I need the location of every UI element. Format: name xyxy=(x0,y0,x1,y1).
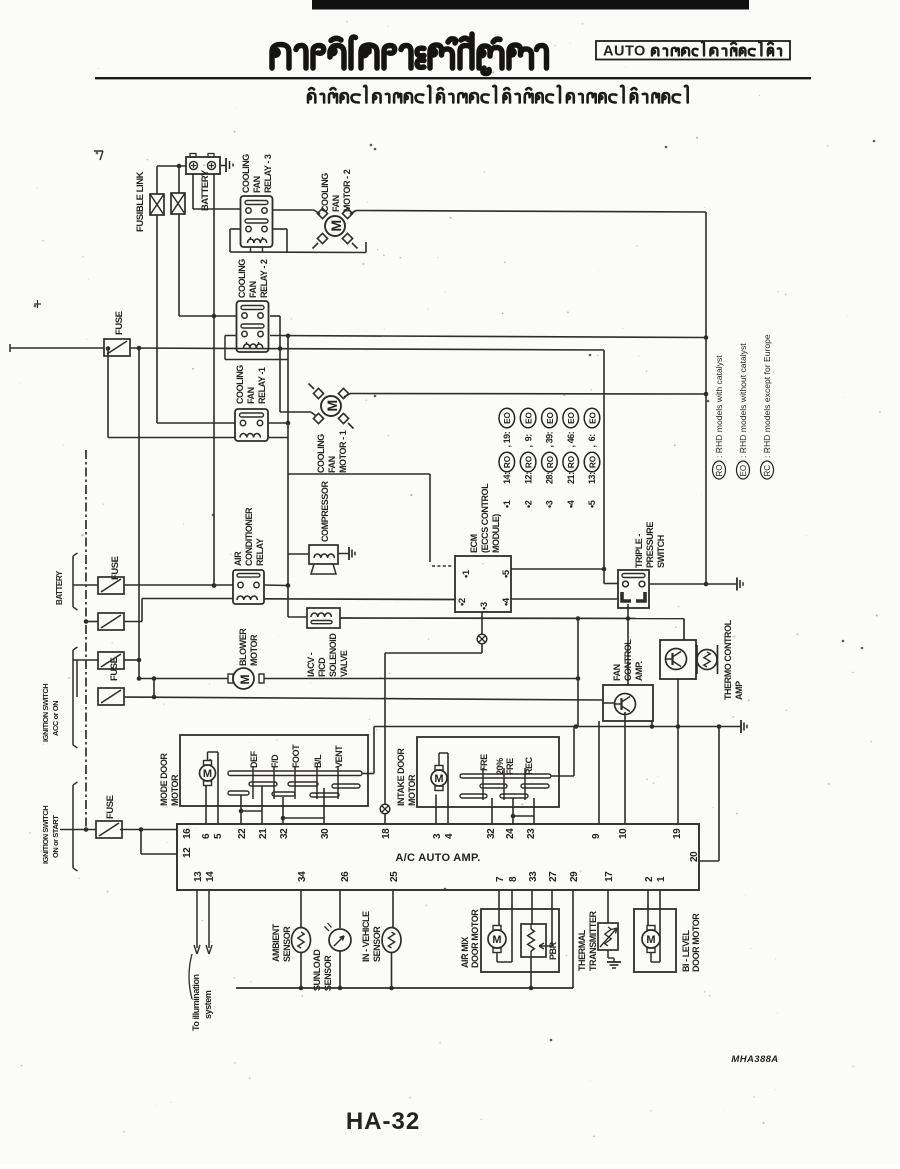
svg-text:EO: EO xyxy=(525,411,534,423)
svg-text:FUSE: FUSE xyxy=(109,657,120,681)
svg-text:HA-32: HA-32 xyxy=(346,1108,420,1135)
svg-text:EO: EO xyxy=(739,465,748,477)
svg-text:23: 23 xyxy=(526,828,537,839)
svg-text:MOTOR - 2: MOTOR - 2 xyxy=(342,169,352,212)
svg-text:20%: 20% xyxy=(495,758,505,775)
svg-text:RC: RC xyxy=(763,465,772,477)
svg-text:18: 18 xyxy=(381,828,392,839)
svg-text:AIR MIX: AIR MIX xyxy=(460,937,470,968)
svg-text:EO: EO xyxy=(503,411,512,423)
svg-text:FUSE: FUSE xyxy=(105,795,116,819)
svg-text:RO: RO xyxy=(567,455,576,468)
svg-text:IN - VEHICLE: IN - VEHICLE xyxy=(361,911,371,962)
svg-text:MODULE): MODULE) xyxy=(491,514,501,553)
svg-text:30: 30 xyxy=(320,828,331,839)
svg-text:BI - LEVEL: BI - LEVEL xyxy=(681,930,691,972)
svg-text:THERMAL: THERMAL xyxy=(577,929,587,971)
svg-text:10: 10 xyxy=(618,828,629,839)
svg-text:RELAY: RELAY xyxy=(255,538,265,566)
svg-text:BLOWER: BLOWER xyxy=(238,628,248,666)
svg-text:, 6:: , 6: xyxy=(587,434,597,448)
svg-text:FRE: FRE xyxy=(479,754,489,771)
svg-text:FAN: FAN xyxy=(248,281,258,298)
svg-text:•1: •1 xyxy=(502,500,512,508)
svg-text:3: 3 xyxy=(432,833,443,839)
svg-text:BATTERY: BATTERY xyxy=(200,169,211,211)
svg-text:MOTOR: MOTOR xyxy=(249,634,259,666)
svg-text:14: 14 xyxy=(205,871,216,882)
svg-text:•5: •5 xyxy=(587,500,597,508)
svg-text:FAN: FAN xyxy=(327,456,337,473)
svg-text:AMP: AMP xyxy=(734,681,744,700)
svg-text:24: 24 xyxy=(505,828,516,839)
svg-text:SENSOR: SENSOR xyxy=(282,926,292,962)
svg-text:21:: 21: xyxy=(566,472,576,484)
svg-text:, 39:: , 39: xyxy=(545,431,555,447)
svg-text:THERMO CONTROL: THERMO CONTROL xyxy=(723,619,733,700)
svg-text:system: system xyxy=(203,990,213,1019)
svg-text:33: 33 xyxy=(528,871,539,882)
svg-text:FUSE: FUSE xyxy=(114,311,125,335)
svg-text:INTAKE DOOR: INTAKE DOOR xyxy=(396,748,406,806)
svg-text:M: M xyxy=(324,400,340,412)
svg-text:COOLING: COOLING xyxy=(316,434,326,473)
svg-text:M: M xyxy=(646,934,655,946)
svg-text:•3: •3 xyxy=(545,500,555,508)
svg-text:34: 34 xyxy=(297,871,308,882)
svg-text:MHA388A: MHA388A xyxy=(731,1054,778,1065)
svg-text:M: M xyxy=(203,768,212,780)
svg-text:•2: •2 xyxy=(457,598,468,606)
svg-text:SWITCH: SWITCH xyxy=(656,535,666,568)
svg-text:A/C AUTO AMP.: A/C AUTO AMP. xyxy=(395,852,480,864)
svg-text:32: 32 xyxy=(486,828,497,839)
svg-text:RO: RO xyxy=(715,465,724,477)
svg-text:FRE: FRE xyxy=(505,758,515,775)
svg-text:FAN: FAN xyxy=(612,664,622,681)
svg-text:SOLENOID: SOLENOID xyxy=(328,633,338,677)
svg-text:DOOR MOTOR: DOOR MOTOR xyxy=(691,913,701,972)
svg-text:DOOR MOTOR: DOOR MOTOR xyxy=(470,909,480,968)
svg-text:MODE DOOR: MODE DOOR xyxy=(159,753,169,806)
svg-text:FAN: FAN xyxy=(331,195,341,212)
svg-text:COOLING: COOLING xyxy=(235,365,245,404)
svg-text:TRIPLE -: TRIPLE - xyxy=(634,534,644,568)
svg-text:: RHD models except for Europe: : RHD models except for Europe xyxy=(762,334,772,458)
svg-text:CONDITIONER: CONDITIONER xyxy=(244,507,254,566)
svg-text:•4: •4 xyxy=(501,597,512,606)
svg-text:: RHD models with catalyst: : RHD models with catalyst xyxy=(714,355,724,458)
svg-text:AMP.: AMP. xyxy=(634,661,644,681)
svg-text:12: 12 xyxy=(182,847,193,858)
svg-text:9: 9 xyxy=(591,833,602,839)
svg-text:M: M xyxy=(328,220,344,232)
svg-text:1: 1 xyxy=(656,876,667,882)
svg-text:14:: 14: xyxy=(502,472,512,484)
svg-text:F/D: F/D xyxy=(270,754,280,768)
svg-text:MOTOR: MOTOR xyxy=(170,774,180,806)
svg-text:, 9:: , 9: xyxy=(523,434,533,448)
svg-text:EO: EO xyxy=(546,411,555,423)
svg-text:M: M xyxy=(434,773,443,785)
svg-text:RO: RO xyxy=(546,455,555,468)
svg-text:RELAY -1: RELAY -1 xyxy=(257,367,267,404)
svg-text:PRESSURE: PRESSURE xyxy=(645,522,655,568)
svg-text:22: 22 xyxy=(237,828,248,839)
svg-text:RELAY - 3: RELAY - 3 xyxy=(263,154,273,193)
svg-text:RO: RO xyxy=(503,455,512,468)
svg-text:CONTROL: CONTROL xyxy=(623,639,633,681)
svg-text:2: 2 xyxy=(644,876,655,882)
svg-text:27: 27 xyxy=(548,871,559,882)
svg-text:EO: EO xyxy=(588,411,597,423)
svg-text:AMBIENT: AMBIENT xyxy=(271,923,281,962)
svg-text:IGNITION SWITCH: IGNITION SWITCH xyxy=(41,684,50,742)
svg-text:M: M xyxy=(238,675,252,685)
svg-text:FUSIBLE LINK: FUSIBLE LINK xyxy=(135,171,146,232)
svg-text:, 46:: , 46: xyxy=(566,431,576,447)
svg-text:32: 32 xyxy=(279,828,290,839)
svg-text:IGNITION SWITCH: IGNITION SWITCH xyxy=(41,806,50,864)
svg-text:IACV -: IACV - xyxy=(306,652,316,677)
svg-text:25: 25 xyxy=(389,871,400,882)
svg-text:6: 6 xyxy=(201,833,212,839)
svg-text:19: 19 xyxy=(672,828,683,839)
svg-text:ON or START: ON or START xyxy=(51,815,60,858)
svg-text:•4: •4 xyxy=(566,500,576,508)
svg-text:•2: •2 xyxy=(523,500,533,508)
svg-text:AUTO: AUTO xyxy=(603,44,646,60)
svg-text:FAN: FAN xyxy=(246,387,256,404)
svg-text:(ECCS CONTROL: (ECCS CONTROL xyxy=(480,483,490,553)
svg-text:29: 29 xyxy=(569,871,580,882)
svg-text:SENSOR: SENSOR xyxy=(323,955,333,991)
svg-text:21: 21 xyxy=(258,828,269,839)
svg-text:16: 16 xyxy=(182,828,193,839)
svg-text:ACC or ON: ACC or ON xyxy=(51,701,60,736)
svg-text:To illumination: To illumination xyxy=(191,974,201,1031)
svg-text:ECM: ECM xyxy=(469,534,479,553)
svg-text:5: 5 xyxy=(213,833,224,839)
svg-text:EO: EO xyxy=(567,411,576,423)
svg-text:DEF: DEF xyxy=(249,750,259,768)
svg-text:VALVE: VALVE xyxy=(339,650,349,677)
svg-text:8: 8 xyxy=(508,876,519,882)
svg-text:FUSE: FUSE xyxy=(110,556,121,580)
svg-text:13:: 13: xyxy=(587,472,597,484)
svg-text:B/L: B/L xyxy=(313,754,323,768)
svg-text:M: M xyxy=(492,934,501,946)
svg-text:SUNLOAD: SUNLOAD xyxy=(312,949,322,991)
svg-text:26: 26 xyxy=(340,871,351,882)
svg-text:: RHD models without catalyst: : RHD models without catalyst xyxy=(738,343,748,458)
svg-text:COOLING: COOLING xyxy=(237,259,247,298)
svg-text:7: 7 xyxy=(495,876,506,882)
svg-text:COOLING: COOLING xyxy=(320,173,330,212)
svg-text:PBR: PBR xyxy=(548,941,558,960)
svg-text:FOOT: FOOT xyxy=(291,744,301,768)
svg-text:13: 13 xyxy=(193,871,204,882)
svg-text:•1: •1 xyxy=(461,569,472,578)
svg-text:SENSOR: SENSOR xyxy=(372,926,382,962)
svg-text:FICD: FICD xyxy=(317,657,327,677)
svg-text:•3: •3 xyxy=(479,602,490,610)
svg-text:RO: RO xyxy=(588,455,597,468)
svg-text:RO: RO xyxy=(525,455,534,468)
svg-text:TRANSMITTER: TRANSMITTER xyxy=(588,911,598,971)
svg-text:RELAY - 2: RELAY - 2 xyxy=(259,259,269,298)
svg-text:COMPRESSOR: COMPRESSOR xyxy=(320,481,330,542)
svg-text:4: 4 xyxy=(444,833,455,839)
svg-text:BATTERY: BATTERY xyxy=(55,570,64,605)
svg-text:AIR: AIR xyxy=(233,551,243,566)
svg-text:MOTOR - 1: MOTOR - 1 xyxy=(338,430,348,473)
svg-text:MOTOR: MOTOR xyxy=(407,774,417,806)
svg-text:20: 20 xyxy=(689,851,700,862)
svg-text:, 19:: , 19: xyxy=(502,431,512,447)
svg-text:•5: •5 xyxy=(501,569,512,578)
svg-text:FAN: FAN xyxy=(252,176,262,193)
svg-text:REC: REC xyxy=(524,756,534,775)
svg-text:COOLING: COOLING xyxy=(241,154,251,193)
svg-text:12:: 12: xyxy=(523,472,533,484)
svg-text:VENT: VENT xyxy=(334,745,344,768)
svg-text:17: 17 xyxy=(604,871,615,882)
svg-text:28:: 28: xyxy=(545,472,555,484)
